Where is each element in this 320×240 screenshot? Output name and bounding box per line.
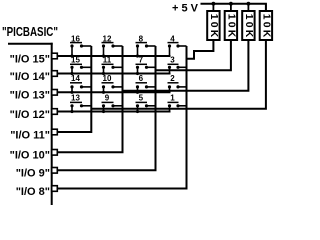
switch S10	[102, 74, 123, 92]
svg-text:"I/O 15": "I/O 15"	[10, 53, 50, 65]
svg-text:13: 13	[71, 93, 80, 102]
svg-text:"I/O 11": "I/O 11"	[10, 129, 50, 141]
chip U1 top edge	[8, 43, 53, 45]
pin I/O 14	[52, 71, 58, 77]
pin I/O 9	[52, 168, 58, 174]
svg-text:10: 10	[103, 74, 112, 83]
svg-text:"I/O 12": "I/O 12"	[10, 109, 50, 121]
pin I/O 15	[52, 53, 58, 59]
svg-text:"I/O 10": "I/O 10"	[10, 150, 50, 162]
junction dots row 14	[70, 72, 139, 75]
wire R4 to column 1	[91, 40, 266, 109]
wire I/O 8 to column 4	[57, 46, 186, 189]
switch S3	[168, 55, 187, 73]
svg-text:5: 5	[139, 93, 144, 102]
svg-text:10K: 10K	[208, 14, 219, 38]
wire R3 to column 2	[123, 40, 249, 91]
resistor R1 10K	[207, 4, 219, 40]
wire R1 to column 4	[187, 40, 214, 59]
svg-text:9: 9	[105, 93, 110, 102]
+5V rail	[201, 4, 266, 12]
svg-text:"I/O 13": "I/O 13"	[10, 90, 50, 102]
svg-text:1: 1	[170, 93, 175, 102]
switch S2	[168, 74, 187, 92]
svg-text:14: 14	[71, 74, 80, 83]
switch S12	[102, 34, 123, 56]
svg-text:6: 6	[139, 74, 144, 83]
pin I/O 10	[52, 150, 58, 156]
svg-text:3: 3	[170, 55, 175, 64]
svg-text:10K: 10K	[243, 14, 254, 38]
switch S11	[102, 55, 123, 73]
switch S9	[102, 93, 123, 111]
svg-text:"I/O 9": "I/O 9"	[16, 168, 50, 180]
pin I/O 12	[52, 109, 58, 115]
svg-text:7: 7	[139, 55, 144, 64]
rail junction dots	[212, 2, 251, 6]
resistor R2 10K	[225, 4, 237, 40]
svg-text:"I/O 14": "I/O 14"	[10, 71, 50, 83]
switch S8	[136, 34, 156, 56]
switch S14	[70, 74, 91, 92]
switch S4	[168, 34, 187, 56]
svg-text:+ 5 V: + 5 V	[172, 3, 199, 15]
chip U1 right edge	[51, 43, 53, 205]
svg-text:10K: 10K	[260, 14, 271, 38]
svg-text:2: 2	[170, 74, 175, 83]
switch S5	[136, 93, 156, 111]
junction dots row 15	[70, 54, 139, 57]
wire row I/O 13	[57, 91, 170, 93]
pin I/O 11	[52, 129, 58, 135]
wire I/O 11 to column 1	[57, 46, 91, 132]
wire I/O 10 to column 2	[57, 46, 122, 152]
svg-text:"PICBASIC": "PICBASIC"	[2, 24, 58, 39]
junction dots row 13	[70, 91, 139, 94]
switch S1	[168, 93, 187, 111]
wire row I/O 14	[57, 73, 170, 75]
wire I/O 9 to column 3	[57, 46, 155, 170]
switch S16	[70, 34, 91, 56]
switch S15	[70, 55, 91, 73]
switch S13	[70, 93, 91, 111]
svg-text:10K: 10K	[225, 14, 236, 38]
pin I/O 8	[52, 186, 58, 192]
resistor R4 10K	[260, 4, 272, 40]
junction dots row 12	[70, 110, 139, 113]
resistor R3 10K	[242, 4, 254, 40]
wire R2 to column 3	[156, 40, 231, 70]
wire row I/O 12	[57, 111, 170, 113]
switch S7	[136, 55, 156, 73]
wire row I/O 15	[57, 55, 170, 57]
switch S6	[136, 74, 156, 92]
svg-text:"I/O 8": "I/O 8"	[16, 186, 50, 198]
pin I/O 13	[52, 90, 58, 96]
